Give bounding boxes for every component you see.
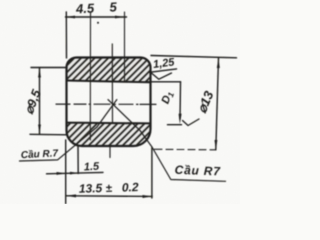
- right dim ext bottom (dashed): [154, 148, 216, 151]
- left dim ext top: [31, 67, 67, 69]
- D1 callout top line: [147, 81, 181, 83]
- right dim ext top: [151, 56, 237, 58]
- D1 arrow down: [179, 114, 182, 124]
- top hatch band (section wall): [67, 58, 151, 82]
- bottom hatch band (section wall): [67, 123, 151, 146]
- left dim line: [39, 68, 41, 135]
- top dim tick 90.5: [89, 13, 91, 141]
- bore bottom edge: [67, 122, 151, 125]
- roughness 1,25 underline: [150, 69, 177, 72]
- top dim extension right: [124, 12, 126, 82]
- horizontal centerline: [56, 103, 156, 105]
- dim 13.5 line: [66, 195, 152, 198]
- left dim arrow down: [38, 125, 41, 135]
- top dimension line: [66, 16, 127, 18]
- roughness 1,25 check: [151, 72, 172, 79]
- leader Cau R7 right: [108, 100, 226, 182]
- right dim arrow down: [215, 140, 218, 150]
- leader Cau R7 left: [20, 100, 117, 161]
- left dim arrow up: [38, 68, 41, 78]
- dim 13.5 arrow right: [143, 195, 153, 198]
- arrow right of top dim: [115, 16, 124, 19]
- right dim line: [216, 58, 219, 150]
- dim 13.5 arrow left: [66, 194, 76, 197]
- dim 1.5 ext right: [77, 146, 79, 174]
- dim 1.5 arrow b: [70, 172, 78, 175]
- roughness check bottom right: [183, 119, 200, 126]
- center line stub below body: [109, 147, 111, 158]
- D1 callout vertical: [179, 82, 182, 119]
- left dim ext bottom: [30, 133, 67, 136]
- dim 13.5 ext left: [65, 140, 67, 204]
- dim 13.5 ext right: [151, 148, 153, 199]
- grain overlay: [0, 0, 240, 204]
- dim 1.5 arrow a: [57, 172, 67, 175]
- vertical center line: [111, 44, 113, 123]
- D1 ext stub: [168, 124, 182, 126]
- roller body outline: [67, 58, 151, 147]
- right dim arrow up: [217, 58, 220, 68]
- dim 1.5 line: [47, 172, 104, 173]
- arrow left of top dim: [66, 16, 75, 19]
- bore top edge: [67, 81, 151, 83]
- dot artifact: [97, 22, 99, 24]
- top dim extension left: [65, 12, 67, 58]
